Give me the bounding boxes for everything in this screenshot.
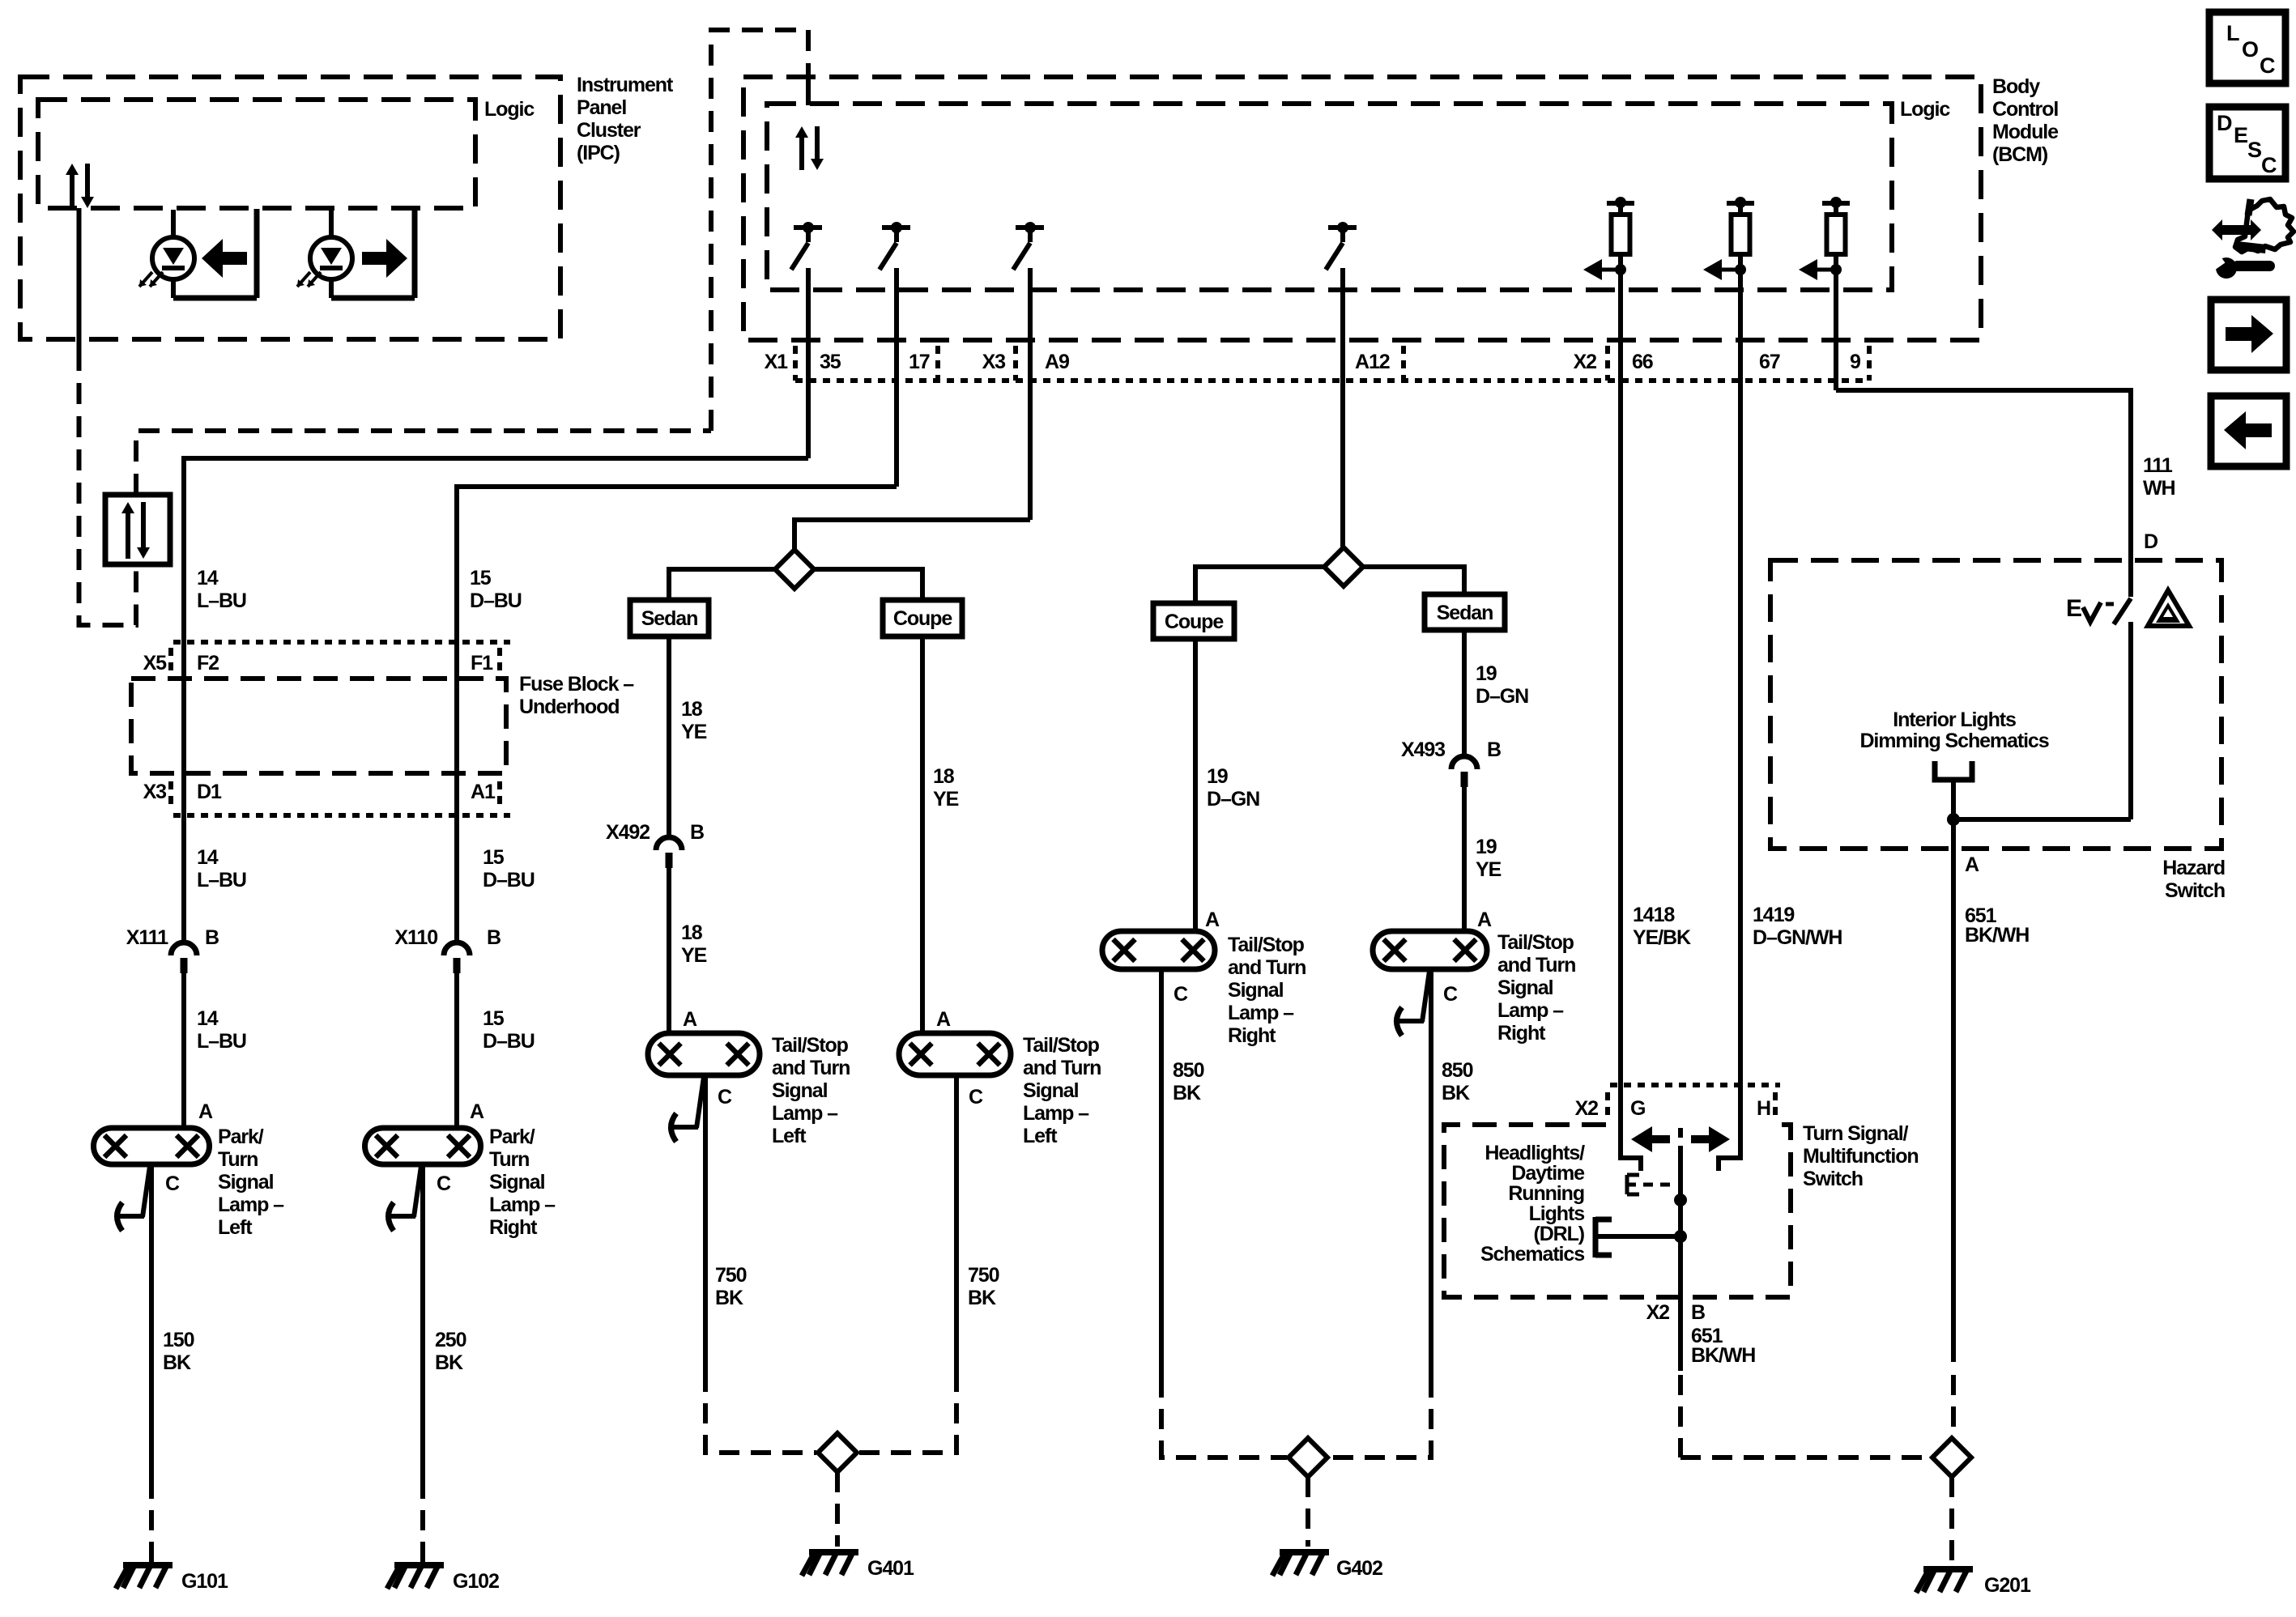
svg-text:BK: BK: [163, 1351, 191, 1374]
svg-text:C: C: [437, 1172, 451, 1195]
svg-text:B: B: [1691, 1301, 1705, 1324]
svg-text:Lamp –: Lamp –: [1023, 1102, 1089, 1125]
svg-text:and Turn: and Turn: [772, 1057, 850, 1079]
svg-text:Multifunction: Multifunction: [1803, 1145, 1919, 1168]
svg-text:Logic: Logic: [484, 98, 535, 121]
svg-text:X492: X492: [606, 821, 650, 844]
svg-text:D–BU: D–BU: [483, 869, 535, 891]
svg-text:and Turn: and Turn: [1023, 1057, 1101, 1079]
svg-text:C: C: [2260, 53, 2275, 78]
svg-text:Park/: Park/: [489, 1126, 535, 1148]
svg-text:Panel: Panel: [577, 96, 626, 119]
svg-text:G401: G401: [867, 1557, 914, 1580]
svg-text:F2: F2: [197, 652, 219, 674]
svg-text:D1: D1: [197, 781, 222, 803]
svg-text:9: 9: [1850, 351, 1860, 373]
svg-text:Park/: Park/: [218, 1126, 264, 1148]
svg-text:Tail/Stop: Tail/Stop: [1228, 934, 1305, 956]
svg-text:YE: YE: [1476, 858, 1502, 881]
svg-text:X493: X493: [1401, 738, 1445, 761]
svg-text:150: 150: [163, 1329, 194, 1351]
svg-text:Tail/Stop: Tail/Stop: [1023, 1034, 1100, 1057]
svg-text:YE: YE: [681, 721, 707, 743]
svg-text:Signal: Signal: [772, 1079, 828, 1102]
svg-text:(IPC): (IPC): [577, 142, 620, 164]
svg-text:G201: G201: [1984, 1574, 2031, 1597]
svg-text:18: 18: [933, 765, 955, 788]
svg-text:C: C: [718, 1086, 732, 1108]
svg-text:D–BU: D–BU: [470, 589, 522, 612]
svg-text:Lamp –: Lamp –: [772, 1102, 838, 1125]
svg-text:L–BU: L–BU: [197, 869, 246, 891]
svg-text:35: 35: [820, 351, 841, 373]
svg-text:YE: YE: [933, 788, 959, 811]
svg-text:C: C: [2261, 153, 2277, 177]
svg-text:Lamp –: Lamp –: [1497, 999, 1564, 1022]
svg-text:X5: X5: [143, 652, 168, 674]
svg-text:B: B: [205, 926, 219, 949]
svg-text:X111: X111: [126, 926, 168, 949]
svg-text:Signal: Signal: [1228, 979, 1284, 1002]
svg-text:X2: X2: [1575, 1097, 1599, 1120]
svg-text:A: A: [936, 1008, 951, 1031]
svg-text:Left: Left: [1023, 1125, 1058, 1147]
svg-text:C: C: [1174, 983, 1188, 1006]
svg-text:Headlights/: Headlights/: [1485, 1142, 1585, 1164]
svg-text:19: 19: [1207, 765, 1228, 788]
svg-text:Left: Left: [218, 1216, 253, 1239]
svg-text:Lamp –: Lamp –: [1228, 1002, 1294, 1024]
svg-text:Switch: Switch: [2165, 879, 2225, 902]
svg-text:G102: G102: [453, 1570, 499, 1593]
svg-text:Right: Right: [1497, 1022, 1546, 1045]
svg-text:C: C: [1443, 983, 1458, 1006]
svg-text:A9: A9: [1045, 351, 1069, 373]
svg-text:D–GN: D–GN: [1476, 685, 1528, 708]
svg-text:Coupe: Coupe: [893, 607, 952, 630]
svg-text:Signal: Signal: [1023, 1079, 1079, 1102]
svg-text:G402: G402: [1336, 1557, 1382, 1580]
svg-text:F1: F1: [471, 652, 493, 674]
svg-text:A: A: [470, 1100, 484, 1123]
svg-text:G: G: [1630, 1097, 1645, 1120]
svg-text:14: 14: [197, 846, 219, 869]
svg-text:Right: Right: [1228, 1024, 1276, 1047]
svg-text:D–BU: D–BU: [483, 1030, 535, 1053]
svg-text:67: 67: [1759, 351, 1780, 373]
svg-text:Left: Left: [772, 1125, 807, 1147]
svg-text:750: 750: [715, 1264, 747, 1287]
svg-text:X2: X2: [1646, 1301, 1670, 1324]
svg-text:Interior Lights: Interior Lights: [1893, 709, 2016, 731]
svg-text:A: A: [1477, 908, 1492, 931]
svg-text:Lights: Lights: [1529, 1202, 1585, 1225]
svg-text:15: 15: [470, 567, 492, 589]
svg-text:Sedan: Sedan: [1437, 602, 1493, 624]
svg-text:E: E: [2234, 123, 2247, 147]
svg-text:Logic: Logic: [1900, 98, 1950, 121]
svg-text:1418: 1418: [1633, 904, 1675, 926]
svg-text:Control: Control: [1992, 98, 2058, 121]
svg-text:19: 19: [1476, 662, 1497, 685]
svg-text:L: L: [2226, 21, 2239, 45]
svg-text:BK: BK: [1173, 1082, 1201, 1104]
svg-text:Signal: Signal: [218, 1171, 274, 1194]
svg-text:BK/WH: BK/WH: [1965, 924, 2029, 947]
svg-text:L–BU: L–BU: [197, 589, 246, 612]
svg-text:Coupe: Coupe: [1165, 611, 1224, 633]
svg-text:BK: BK: [435, 1351, 463, 1374]
svg-text:14: 14: [197, 1007, 219, 1030]
svg-text:BK: BK: [715, 1287, 743, 1309]
svg-text:A: A: [683, 1008, 697, 1031]
svg-text:G101: G101: [181, 1570, 228, 1593]
svg-text:B: B: [1487, 738, 1501, 761]
svg-text:850: 850: [1442, 1059, 1473, 1082]
svg-text:X110: X110: [394, 926, 437, 949]
svg-text:1419: 1419: [1753, 904, 1794, 926]
svg-text:and Turn: and Turn: [1497, 954, 1575, 977]
svg-text:Tail/Stop: Tail/Stop: [772, 1034, 849, 1057]
svg-text:D–GN: D–GN: [1207, 788, 1259, 811]
svg-text:Running: Running: [1508, 1182, 1584, 1205]
svg-text:WH: WH: [2143, 477, 2175, 500]
svg-text:Sedan: Sedan: [641, 607, 698, 630]
svg-text:Switch: Switch: [1803, 1168, 1863, 1190]
svg-text:Instrument: Instrument: [577, 74, 674, 96]
svg-text:Schematics: Schematics: [1480, 1243, 1584, 1266]
svg-text:Hazard: Hazard: [2162, 857, 2225, 879]
svg-text:A1: A1: [471, 781, 496, 803]
svg-text:Cluster: Cluster: [577, 119, 641, 142]
svg-text:Underhood: Underhood: [519, 696, 619, 718]
svg-text:18: 18: [681, 698, 703, 721]
svg-text:YE/BK: YE/BK: [1633, 926, 1691, 949]
svg-text:Turn: Turn: [489, 1148, 529, 1171]
svg-text:Signal: Signal: [1497, 977, 1553, 999]
svg-text:A: A: [1965, 853, 1979, 876]
svg-text:A12: A12: [1355, 351, 1390, 373]
svg-text:Lamp –: Lamp –: [489, 1194, 556, 1216]
svg-text:Dimming Schematics: Dimming Schematics: [1859, 730, 2048, 752]
svg-text:YE: YE: [681, 944, 707, 967]
svg-text:C: C: [165, 1172, 180, 1195]
svg-text:Lamp –: Lamp –: [218, 1194, 284, 1216]
svg-text:BK: BK: [1442, 1082, 1470, 1104]
svg-text:A: A: [1205, 908, 1220, 931]
svg-text:14: 14: [197, 567, 219, 589]
svg-text:Turn Signal/: Turn Signal/: [1803, 1122, 1909, 1145]
svg-text:19: 19: [1476, 836, 1497, 858]
svg-text:BK/WH: BK/WH: [1691, 1344, 1755, 1367]
svg-text:18: 18: [681, 921, 703, 944]
svg-text:X1: X1: [765, 351, 789, 373]
svg-text:17: 17: [909, 351, 930, 373]
svg-text:E: E: [2066, 595, 2081, 622]
svg-text:66: 66: [1632, 351, 1653, 373]
svg-text:850: 850: [1173, 1059, 1204, 1082]
svg-text:X2: X2: [1574, 351, 1597, 373]
svg-text:D–GN/WH: D–GN/WH: [1753, 926, 1842, 949]
svg-text:X3: X3: [982, 351, 1006, 373]
svg-text:Right: Right: [489, 1216, 538, 1239]
svg-text:Body: Body: [1992, 75, 2040, 98]
svg-text:Turn: Turn: [218, 1148, 258, 1171]
svg-text:BK: BK: [968, 1287, 996, 1309]
svg-text:L–BU: L–BU: [197, 1030, 246, 1053]
svg-text:H: H: [1757, 1097, 1770, 1120]
svg-text:15: 15: [483, 1007, 505, 1030]
svg-text:Module: Module: [1992, 121, 2059, 143]
svg-text:(DRL): (DRL): [1533, 1223, 1584, 1245]
svg-text:111: 111: [2143, 454, 2173, 477]
svg-text:C: C: [969, 1086, 983, 1108]
svg-text:15: 15: [483, 846, 505, 869]
svg-text:750: 750: [968, 1264, 999, 1287]
svg-text:D: D: [2144, 530, 2158, 553]
svg-text:X3: X3: [143, 781, 167, 803]
svg-text:(BCM): (BCM): [1992, 143, 2048, 166]
svg-text:B: B: [487, 926, 501, 949]
svg-text:and Turn: and Turn: [1228, 956, 1306, 979]
svg-text:S: S: [2247, 138, 2261, 162]
svg-text:A: A: [198, 1100, 213, 1123]
svg-text:250: 250: [435, 1329, 466, 1351]
svg-text:B: B: [690, 821, 704, 844]
svg-text:Fuse Block –: Fuse Block –: [519, 673, 634, 696]
svg-text:Tail/Stop: Tail/Stop: [1497, 931, 1574, 954]
svg-text:O: O: [2242, 37, 2258, 62]
svg-text:Daytime: Daytime: [1511, 1162, 1585, 1185]
svg-text:Signal: Signal: [489, 1171, 545, 1194]
svg-text:D: D: [2217, 111, 2232, 135]
